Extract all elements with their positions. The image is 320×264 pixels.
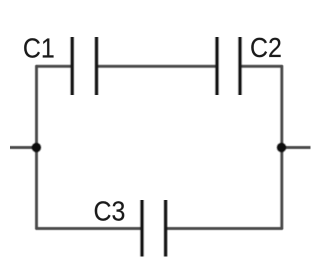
wire bottom-left: left corner to C3 left plate	[36, 226, 142, 230]
svg-text:C3: C3	[94, 195, 126, 227]
wire right vertical	[280, 65, 284, 229]
capacitor C1	[72, 37, 96, 95]
wire bottom-right: C3 right plate to right corner	[166, 226, 283, 230]
svg-text:C2: C2	[250, 31, 282, 63]
node right junction dot	[276, 142, 287, 153]
node left junction dot	[31, 142, 42, 153]
wire external lead right	[282, 145, 311, 149]
wire top-left: left corner to C1 left plate	[36, 64, 73, 68]
wire external lead left	[10, 145, 36, 149]
svg-text:C1: C1	[23, 32, 55, 64]
wire top-right: C2 right plate to right corner	[240, 64, 283, 68]
wire left vertical	[34, 65, 38, 229]
capacitor C2	[217, 37, 240, 95]
capacitor C3	[142, 200, 166, 257]
wire top-middle: C1 right plate to C2 left plate	[97, 64, 218, 68]
